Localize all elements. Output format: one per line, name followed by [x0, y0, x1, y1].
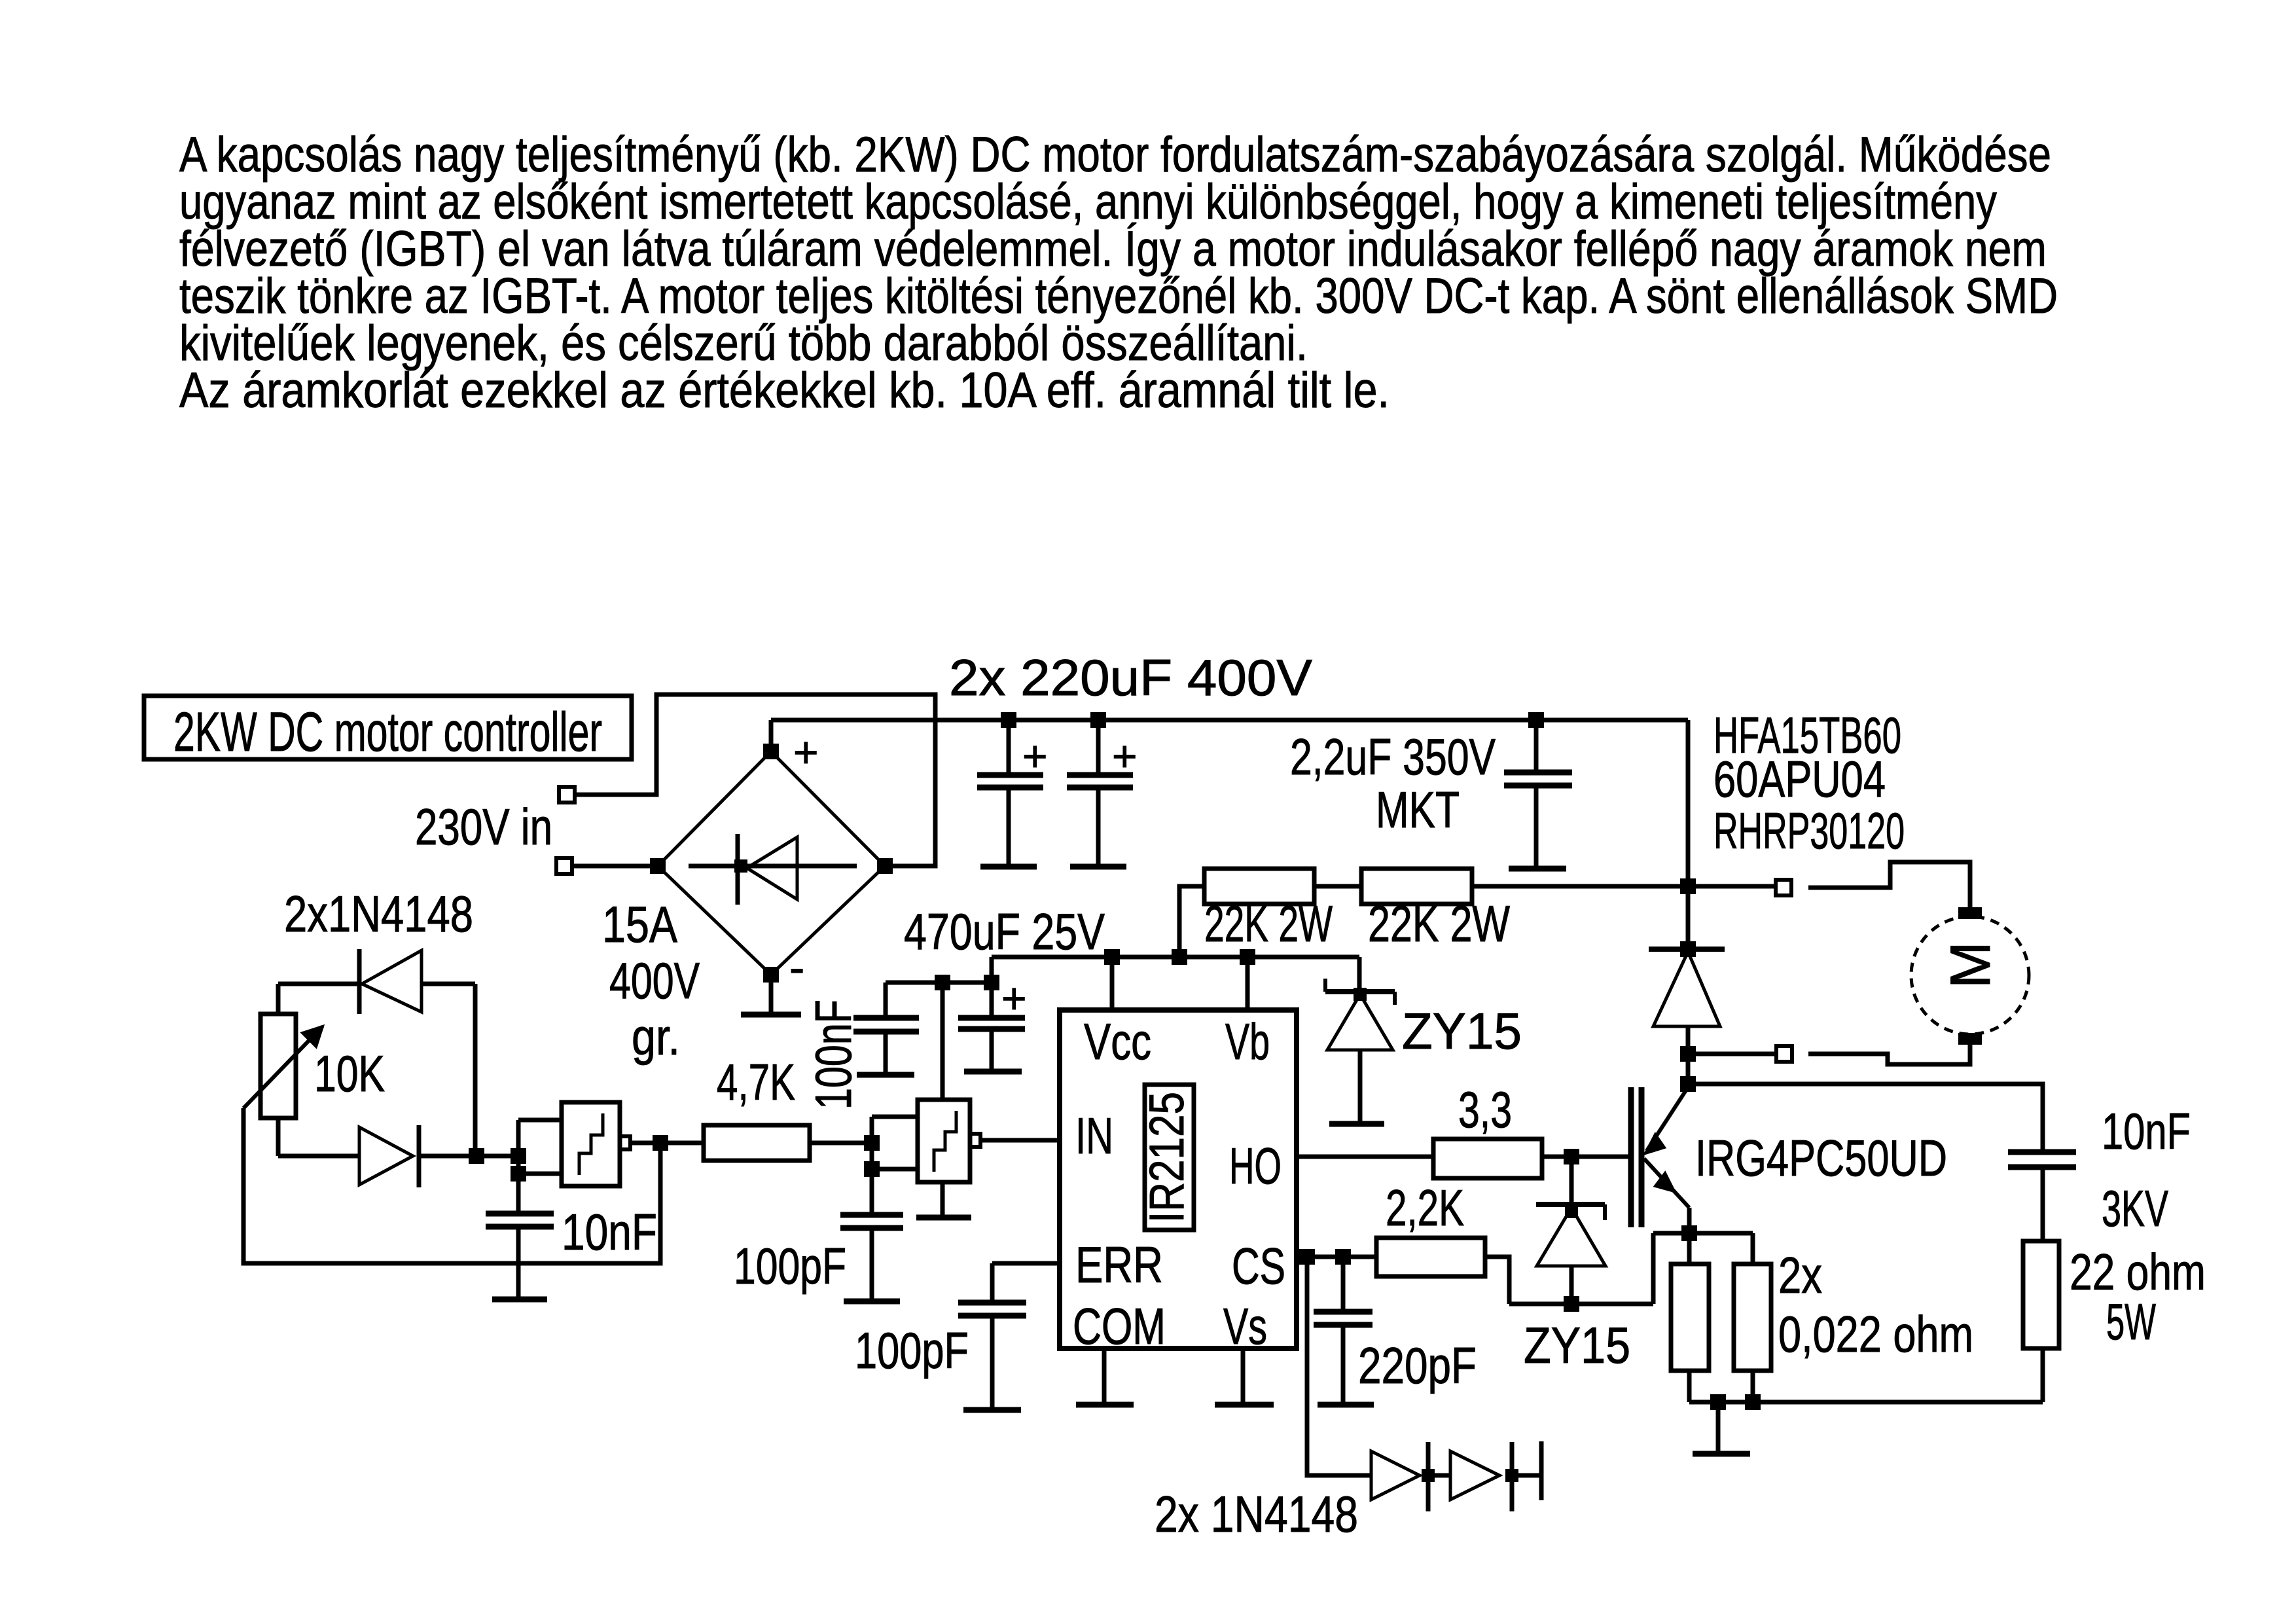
- svg-text:22K 2W: 22K 2W: [1204, 895, 1333, 952]
- svg-text:4,7K: 4,7K: [717, 1053, 795, 1111]
- svg-text:RHRP30120: RHRP30120: [1713, 802, 1905, 859]
- svg-text:ZY15: ZY15: [1402, 1002, 1522, 1060]
- svg-text:100pF: 100pF: [855, 1322, 969, 1379]
- svg-text:ERR: ERR: [1075, 1236, 1163, 1293]
- svg-text:100pF: 100pF: [734, 1237, 846, 1295]
- svg-text:10K: 10K: [314, 1045, 385, 1102]
- svg-text:100nF: 100nF: [804, 1000, 862, 1110]
- svg-text:Vs: Vs: [1223, 1297, 1267, 1355]
- svg-text:+: +: [1001, 974, 1027, 1022]
- svg-text:10nF: 10nF: [2102, 1102, 2191, 1160]
- svg-text:3,3: 3,3: [1458, 1081, 1512, 1138]
- svg-text:3KV: 3KV: [2102, 1180, 2168, 1237]
- svg-text:IR2125: IR2125: [1139, 1092, 1194, 1223]
- svg-text:Az áramkorlát ezekkel az érték: Az áramkorlát ezekkel az értékekkel kb. …: [179, 363, 1390, 418]
- svg-text:10nF: 10nF: [562, 1203, 657, 1261]
- svg-text:2x 1N4148: 2x 1N4148: [1155, 1485, 1358, 1543]
- svg-text:2KW DC motor controller: 2KW DC motor controller: [173, 701, 602, 763]
- svg-text:gr.: gr.: [632, 1008, 680, 1066]
- svg-text:ZY15: ZY15: [1524, 1316, 1630, 1374]
- svg-text:2x 220uF 400V: 2x 220uF 400V: [949, 649, 1312, 706]
- svg-text:MKT: MKT: [1376, 781, 1460, 839]
- svg-text:2,2K: 2,2K: [1386, 1179, 1464, 1236]
- svg-text:2,2uF 350V: 2,2uF 350V: [1290, 728, 1496, 785]
- svg-text:22 ohm: 22 ohm: [2070, 1243, 2206, 1301]
- svg-text:2x: 2x: [1778, 1246, 1822, 1304]
- svg-text:CS: CS: [1232, 1237, 1285, 1295]
- svg-text:22K 2W: 22K 2W: [1368, 895, 1510, 952]
- svg-text:15A: 15A: [602, 895, 677, 953]
- svg-text:Vb: Vb: [1225, 1013, 1270, 1070]
- svg-text:5W: 5W: [2106, 1293, 2156, 1350]
- svg-text:470uF 25V: 470uF 25V: [904, 903, 1105, 960]
- svg-text:220pF: 220pF: [1358, 1337, 1477, 1394]
- svg-text:+: +: [1112, 732, 1138, 780]
- svg-text:Vcc: Vcc: [1084, 1013, 1151, 1070]
- svg-text:+: +: [793, 728, 819, 776]
- svg-text:2x1N4148: 2x1N4148: [284, 885, 473, 943]
- svg-text:400V: 400V: [609, 952, 700, 1009]
- svg-text:0,022 ohm: 0,022 ohm: [1778, 1305, 1973, 1363]
- svg-text:COM: COM: [1073, 1297, 1166, 1355]
- svg-text:+: +: [1022, 732, 1048, 780]
- svg-text:-: -: [789, 942, 804, 993]
- svg-text:IRG4PC50UD: IRG4PC50UD: [1695, 1129, 1947, 1187]
- svg-text:HO: HO: [1229, 1137, 1282, 1195]
- svg-text:230V in: 230V in: [415, 798, 552, 856]
- svg-text:M: M: [1939, 941, 2002, 988]
- svg-text:IN: IN: [1075, 1107, 1113, 1164]
- svg-text:60APU04: 60APU04: [1713, 750, 1886, 808]
